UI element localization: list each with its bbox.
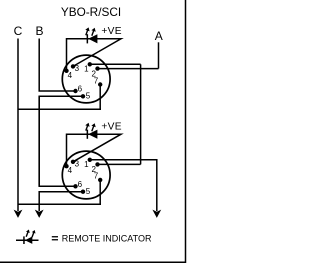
svg-text:3: 3 — [75, 160, 80, 169]
svg-text:C: C — [14, 24, 23, 38]
svg-text:3: 3 — [75, 64, 80, 73]
svg-text:6: 6 — [78, 180, 83, 189]
svg-text:1: 1 — [84, 160, 89, 169]
svg-text:4: 4 — [68, 166, 73, 175]
svg-text:5: 5 — [86, 187, 91, 196]
svg-text:YBO-R/SCI: YBO-R/SCI — [61, 5, 121, 19]
svg-text:+VE: +VE — [101, 121, 121, 132]
svg-text:B: B — [35, 24, 43, 38]
svg-text:REMOTE INDICATOR: REMOTE INDICATOR — [62, 233, 152, 243]
svg-text:+VE: +VE — [101, 26, 121, 37]
svg-text:A: A — [155, 29, 163, 43]
svg-text:1: 1 — [84, 65, 89, 74]
svg-text:7: 7 — [94, 172, 99, 181]
svg-text:6: 6 — [78, 84, 83, 93]
svg-text:4: 4 — [68, 71, 73, 80]
svg-text:7: 7 — [94, 76, 99, 85]
svg-text:5: 5 — [86, 91, 91, 100]
